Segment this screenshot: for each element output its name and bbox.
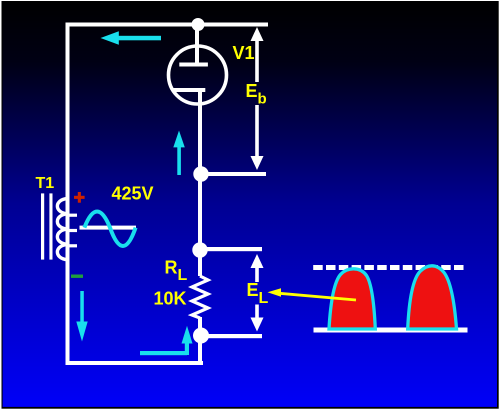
waveform baseline: [314, 328, 468, 333]
wire left: [66, 23, 70, 366]
wire resistor to bottom: [198, 317, 202, 364]
measurement arrow Eb: [251, 27, 264, 170]
wire bottom: [66, 361, 204, 365]
node resistor top junction: [192, 242, 207, 257]
resistor RL zigzag: [192, 276, 208, 318]
transformer T1 winding: [57, 199, 77, 260]
current arrow bottom (L shape up): [140, 326, 193, 355]
node cathode junction: [193, 166, 208, 181]
transformer T1 core: [41, 193, 53, 259]
waveform peak dashed line: [313, 265, 463, 270]
waveform pulse 2: [408, 266, 457, 329]
pointer arrow EL to pulse: [268, 288, 357, 300]
sine axis: [80, 226, 137, 230]
waveform pulse 1: [329, 269, 375, 329]
wire plate lead: [195, 26, 199, 64]
current arrow left (down): [76, 291, 87, 342]
svg-text:425V: 425V: [112, 184, 154, 204]
tube V1 plate: [179, 63, 208, 67]
tube V1 envelope: [169, 46, 227, 104]
current arrow middle (up): [173, 131, 185, 176]
node resistor bottom junction: [193, 328, 209, 344]
tube V1 cathode: [173, 88, 206, 92]
wire EL bottom stub: [201, 334, 262, 338]
sine wave: [84, 212, 135, 247]
svg-text:T1: T1: [36, 175, 55, 192]
svg-text:V1: V1: [233, 43, 255, 63]
measurement arrow EL: [251, 254, 264, 332]
svg-text:10K: 10K: [154, 289, 187, 309]
wire Eb bottom stub: [201, 172, 266, 176]
polarity plus: [74, 192, 85, 203]
polarity minus: [71, 275, 83, 278]
current arrow top (left): [101, 31, 162, 45]
wire EL top stub: [200, 247, 262, 251]
node top junction: [192, 18, 205, 31]
wire top: [66, 23, 269, 27]
wire cathode to resistor: [198, 91, 202, 276]
